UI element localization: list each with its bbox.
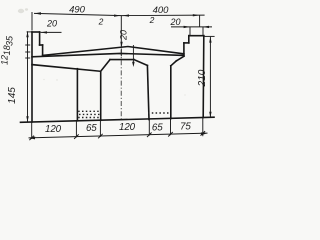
svg-text:12: 12	[0, 55, 10, 65]
middle rib right face	[147, 65, 149, 119]
extension line left edge	[31, 12, 33, 31]
middle rib right chamfer	[134, 60, 147, 66]
top dimension line 490/400	[34, 13, 205, 15]
bottom dimension slash ticks	[29, 131, 205, 140]
right slab/wall edge	[202, 36, 205, 118]
dotted bedding block in left opening	[78, 111, 100, 117]
right wall top chamfer	[171, 61, 177, 66]
right 20 curb dimension line	[171, 26, 212, 28]
svg-text:20: 20	[46, 18, 57, 28]
svg-text:65: 65	[86, 123, 97, 134]
middle rib left face	[100, 71, 102, 120]
right wall left face	[170, 66, 172, 119]
bottom dimension line	[29, 133, 208, 138]
left curb step vertical	[42, 45, 44, 56]
svg-text:490: 490	[69, 4, 86, 15]
rib axis dash-dot centerline	[120, 50, 122, 121]
pavement top line with crown	[43, 47, 184, 56]
bottom extension lines	[31, 122, 33, 139]
left curb step horizontal	[40, 44, 43, 46]
400 right end arrow	[193, 14, 200, 16]
svg-text:2: 2	[149, 15, 155, 25]
svg-text:35: 35	[5, 35, 15, 46]
middle rib top	[110, 59, 134, 61]
right top reference line	[204, 35, 215, 37]
faint scan smudges	[18, 8, 186, 95]
left soffit slope	[32, 65, 101, 72]
svg-text:75: 75	[180, 122, 191, 133]
paper background	[0, 0, 220, 152]
490/400 centre arrows	[114, 15, 121, 17]
right cantilever soffit	[176, 56, 184, 61]
right curb step horizontal	[184, 42, 189, 44]
svg-text:120: 120	[45, 124, 62, 135]
left curb top	[32, 31, 40, 33]
left curb inner face	[39, 32, 41, 45]
svg-text:65: 65	[152, 122, 163, 133]
curb top extension to dim line	[27, 31, 32, 33]
slope reference line with down arrow	[132, 45, 135, 67]
right curb inner face	[188, 36, 190, 43]
right 20 arrows	[184, 26, 190, 28]
left wall right face	[76, 69, 78, 121]
svg-text:20: 20	[169, 17, 180, 27]
left dimension ticks 35/18/12	[25, 44, 30, 46]
svg-text:18: 18	[2, 45, 12, 55]
left slab edge and wall outer face	[31, 32, 33, 122]
dotted line in right opening	[148, 112, 171, 114]
right curb extension lines	[189, 27, 191, 36]
ground baseline	[21, 117, 215, 122]
extension line right 400 end	[199, 15, 201, 27]
bottom line end arrows	[29, 137, 36, 140]
left 20 arrow	[41, 31, 47, 33]
svg-text:120: 120	[119, 122, 136, 133]
right 210 top/bottom arrows	[209, 37, 211, 43]
svg-text:400: 400	[153, 5, 170, 16]
right curb top	[189, 35, 204, 37]
middle rib left chamfer	[101, 60, 110, 72]
left 20 curb dimension line	[41, 31, 62, 33]
dimension arrowheads	[26, 12, 211, 139]
svg-text:210: 210	[197, 69, 208, 87]
left vertical top/bottom arrows	[26, 31, 28, 37]
left vertical dimension line	[27, 31, 29, 122]
center extension / crown dimension line	[120, 16, 122, 57]
right vertical dimension line 210	[209, 37, 211, 118]
crown 20 down arrow	[120, 42, 122, 48]
structural slab top line	[32, 53, 184, 56]
svg-text:145: 145	[7, 87, 18, 104]
svg-text:20: 20	[118, 30, 128, 41]
svg-text:2: 2	[98, 17, 104, 27]
right curb step vertical	[183, 43, 185, 56]
490 left end arrow	[34, 12, 41, 14]
